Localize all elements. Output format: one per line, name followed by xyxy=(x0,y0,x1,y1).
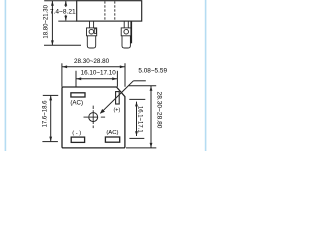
svg-text:( - ): ( - ) xyxy=(72,130,81,136)
svg-text:(+): (+) xyxy=(114,107,121,113)
svg-text:(AC): (AC) xyxy=(70,99,83,106)
svg-text:(AC): (AC) xyxy=(106,130,118,136)
svg-text:28.30~28.80: 28.30~28.80 xyxy=(156,92,163,129)
svg-text:7.4~8.21: 7.4~8.21 xyxy=(50,9,76,16)
svg-text:5.08~5.59: 5.08~5.59 xyxy=(138,68,167,75)
svg-text:16.10~17.10: 16.10~17.10 xyxy=(81,70,117,77)
svg-text:16.1~17.1: 16.1~17.1 xyxy=(136,106,142,134)
svg-text:18.80~21.30: 18.80~21.30 xyxy=(43,4,49,38)
svg-text:28.30~28.80: 28.30~28.80 xyxy=(74,58,110,65)
svg-text:17.6~18.6: 17.6~18.6 xyxy=(42,100,48,128)
